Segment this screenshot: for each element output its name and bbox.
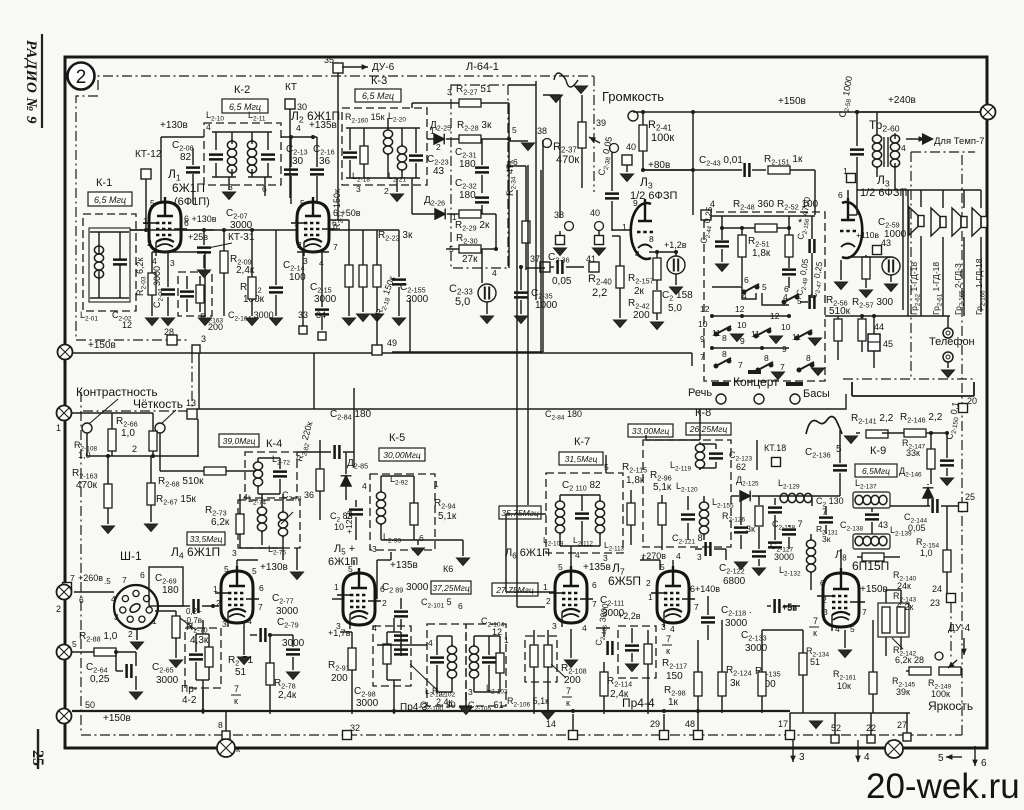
- wire +50в: [330, 219, 349, 221]
- capacitor C2-138: [865, 515, 879, 520]
- svg-text:2,4к: 2,4к: [436, 697, 453, 707]
- wire: [226, 470, 256, 472]
- svg-text:12: 12: [700, 304, 710, 314]
- svg-text:.5: .5: [104, 577, 111, 586]
- fraction bar: [809, 626, 819, 628]
- svg-text:5: 5: [762, 282, 767, 292]
- capacitor C2-65: [189, 655, 203, 660]
- svg-text:4-2: 4-2: [182, 695, 197, 706]
- wire: [703, 534, 705, 540]
- ground: [515, 316, 528, 324]
- ground: [412, 548, 425, 556]
- wire: [715, 462, 717, 468]
- diode Д2-85: [341, 476, 352, 486]
- pot arrow: [948, 660, 957, 668]
- wire: [337, 73, 339, 220]
- wire: [800, 301, 808, 303]
- wire: [980, 237, 982, 312]
- leader line R2-108: [551, 664, 566, 678]
- wire: [543, 94, 560, 96]
- svg-text:1: 1: [152, 616, 157, 626]
- svg-text:6 +50в: 6 +50в: [333, 208, 361, 218]
- diode Д2-148: [923, 488, 934, 498]
- phone jack bottom: [943, 352, 953, 362]
- svg-text:R2-88 1,0: R2-88 1,0: [79, 631, 118, 644]
- wire to Л6: [517, 606, 545, 608]
- svg-text:3к: 3к: [730, 678, 741, 689]
- tube Л4 6Ж1П: [215, 566, 259, 627]
- junction: [202, 228, 206, 232]
- svg-text:R2-117: R2-117: [662, 658, 687, 671]
- svg-text:4: 4: [206, 122, 211, 132]
- svg-text:R2-106 5,1к: R2-106 5,1к: [507, 696, 549, 709]
- wire: [381, 539, 414, 541]
- wire drop: [313, 353, 315, 409]
- svg-text:2,2: 2,2: [592, 287, 607, 299]
- wire: [902, 190, 904, 310]
- capacitor C2-116: [625, 646, 639, 651]
- wire: [236, 560, 238, 570]
- svg-text:R2-51: R2-51: [748, 236, 770, 249]
- ground: [522, 143, 535, 151]
- svg-text:R2-37: R2-37: [553, 141, 577, 155]
- svg-text:2: 2: [132, 444, 137, 454]
- svg-text:C2-138: C2-138: [840, 520, 863, 533]
- svg-text:0,05: 0,05: [552, 276, 572, 287]
- wire: [240, 547, 283, 549]
- filter can K-8: [643, 440, 731, 547]
- svg-text:26,25Мгц: 26,25Мгц: [689, 424, 728, 434]
- wire: [885, 590, 887, 603]
- wire: [135, 676, 137, 690]
- svg-text:+130в: +130в: [160, 120, 188, 131]
- wire: [946, 572, 948, 598]
- ground: [835, 282, 848, 290]
- svg-text:5: 5: [150, 198, 155, 208]
- resistor R2-147: [927, 449, 935, 469]
- svg-text:6: 6: [820, 578, 825, 588]
- coil L2-20: [383, 128, 392, 156]
- wire: [145, 179, 147, 230]
- transformer primary: [872, 133, 881, 169]
- connector 2: [57, 585, 72, 600]
- svg-text:РАДИО № 9: РАДИО № 9: [23, 40, 39, 124]
- svg-text:5: 5: [348, 564, 353, 574]
- svg-text:R2-03 6,2к: R2-03 6,2к: [135, 258, 148, 296]
- svg-text:2: 2: [76, 67, 87, 88]
- wire: [697, 714, 699, 730]
- svg-text:43: 43: [433, 166, 445, 177]
- svg-text:L2-18: L2-18: [352, 171, 370, 184]
- wire: [161, 136, 204, 138]
- svg-text:+240в: +240в: [888, 95, 916, 106]
- wire: [392, 351, 543, 353]
- resistor R2-98: [694, 672, 702, 696]
- svg-text:29: 29: [650, 719, 660, 729]
- svg-text:R2-27 51: R2-27 51: [456, 84, 492, 97]
- svg-text:R2-41: R2-41: [648, 119, 672, 133]
- wire: [581, 95, 583, 122]
- leader line Контрастность: [90, 399, 118, 423]
- svg-text:6: 6: [838, 190, 843, 200]
- wire +80в: [643, 169, 693, 171]
- frequency label 6,5Мгц: [855, 464, 897, 477]
- svg-text:4: 4: [676, 551, 681, 561]
- connector 50: [57, 709, 72, 724]
- svg-text:2: 2: [297, 240, 302, 250]
- svg-text:31,5Мгц: 31,5Мгц: [565, 454, 598, 464]
- svg-text:7: 7: [122, 575, 127, 585]
- wire: [906, 713, 908, 733]
- arrow 3: [792, 740, 794, 762]
- resistor R2-27: [459, 99, 481, 107]
- electrolytic C2-33: [478, 284, 496, 302]
- switch contact 7-8: [714, 358, 731, 368]
- wire: [321, 252, 323, 307]
- svg-text:C2-04 3000: C2-04 3000: [152, 266, 165, 308]
- svg-text:5: 5: [252, 566, 257, 576]
- svg-text:4: 4: [575, 550, 580, 560]
- wire to socket: [74, 591, 114, 593]
- video unit boundary left: [80, 392, 82, 733]
- switch contact: [782, 294, 799, 304]
- svg-text:35: 35: [324, 55, 334, 65]
- wire: [526, 267, 545, 269]
- junction: [691, 110, 695, 114]
- coil L2-103: [469, 644, 478, 680]
- wire: [231, 169, 233, 177]
- wire: [699, 409, 701, 440]
- svg-text:L2-129: L2-129: [778, 478, 800, 491]
- wire R2-37: [559, 122, 561, 218]
- cathode wire Л3b: [848, 256, 891, 258]
- svg-text:R2-126: R2-126: [722, 511, 745, 524]
- svg-text:R2-57 300: R2-57 300: [852, 297, 894, 310]
- wire: [376, 230, 378, 265]
- svg-text:C2 130: C2 130: [816, 496, 844, 509]
- svg-text:7: 7: [700, 352, 705, 362]
- svg-text:C2-84 180: C2-84 180: [330, 409, 372, 422]
- junction: [787, 226, 791, 230]
- svg-text:7: 7: [862, 607, 867, 617]
- wire: [412, 213, 435, 215]
- wire: [290, 137, 292, 167]
- wire K8 top: [646, 439, 700, 441]
- inter-unit wire: [527, 165, 529, 505]
- svg-text:4: 4: [901, 143, 906, 153]
- capacitor C2-136: [833, 466, 847, 471]
- inner screen box K-1: [89, 228, 130, 302]
- svg-text:6,2к: 6,2к: [211, 517, 230, 528]
- capacitor: [734, 528, 748, 533]
- wire: [251, 299, 253, 316]
- wire: [715, 444, 717, 449]
- wire: [345, 486, 347, 500]
- terminal 33: [299, 326, 307, 334]
- schematic outer frame: [65, 57, 987, 748]
- wire: [774, 525, 776, 540]
- coil L2-10: [227, 139, 236, 175]
- svg-text:C2-43 0,01: C2-43 0,01: [699, 155, 743, 168]
- terminal 3: [192, 345, 200, 353]
- svg-text:35,75Мгц: 35,75Мгц: [501, 508, 539, 518]
- button Басы: [790, 394, 800, 404]
- terminal: [660, 731, 669, 740]
- svg-text:R2-42: R2-42: [628, 298, 650, 311]
- svg-text:5: 5: [449, 244, 454, 254]
- diode Д2-25: [434, 134, 444, 145]
- wire: [90, 231, 129, 233]
- svg-text:L2-01: L2-01: [80, 310, 98, 323]
- junction: [696, 709, 700, 713]
- wire: [605, 455, 607, 473]
- wire: [740, 535, 742, 549]
- wire: [572, 714, 574, 730]
- svg-text:1: 1: [213, 584, 218, 594]
- svg-text:5: 5: [72, 639, 77, 649]
- fuse unit box Пр4-4: [618, 626, 656, 678]
- junction: [494, 247, 498, 251]
- svg-text:L2-120: L2-120: [676, 481, 698, 494]
- wire: [707, 625, 709, 640]
- capacitor C2-43: [745, 163, 750, 177]
- ground: [885, 284, 898, 292]
- svg-text:+150в: +150в: [860, 584, 888, 595]
- wire: [447, 213, 460, 215]
- svg-text:43: 43: [881, 238, 891, 248]
- capacitor: [681, 515, 695, 520]
- svg-text:39,0Мгц: 39,0Мгц: [223, 436, 256, 446]
- svg-text:C2-65: C2-65: [152, 662, 174, 675]
- wire: [462, 540, 464, 556]
- capacitor: [709, 454, 723, 459]
- wire: [167, 252, 169, 287]
- svg-text:(6Ф1П): (6Ф1П): [174, 196, 210, 208]
- svg-text:R2-67 15к: R2-67 15к: [156, 494, 197, 507]
- resistor R2-71: [205, 647, 213, 667]
- wire: [290, 176, 292, 204]
- svg-text:1: 1: [334, 582, 339, 592]
- wire: [619, 236, 621, 266]
- diode Д2-125: [740, 491, 750, 502]
- svg-text:Д2-26: Д2-26: [424, 195, 445, 208]
- wire: [930, 469, 932, 484]
- capacitor C2-58: [850, 150, 864, 155]
- resistor R2-51: [738, 235, 746, 257]
- terminal 25: [959, 503, 968, 512]
- wire tail: [691, 353, 693, 366]
- wire: [509, 140, 528, 142]
- svg-text:28: 28: [164, 327, 174, 337]
- fuse unit Пр-4-2: [185, 628, 221, 688]
- svg-text:3: 3: [661, 622, 666, 632]
- svg-text:7: 7: [70, 573, 75, 583]
- svg-text:R2-29 2к: R2-29 2к: [455, 220, 490, 233]
- wire: [380, 476, 382, 492]
- wire: [825, 506, 827, 515]
- ground: [554, 248, 567, 256]
- svg-text:C2-79: C2-79: [277, 617, 299, 630]
- wire: [349, 160, 351, 178]
- wire: [762, 629, 803, 631]
- svg-text:К-5: К-5: [389, 432, 405, 444]
- svg-text:100к: 100к: [931, 689, 950, 699]
- wire: [481, 213, 496, 215]
- svg-text:+150в: +150в: [778, 96, 806, 107]
- wire: [414, 539, 463, 541]
- K-3 bottom wire: [346, 177, 420, 179]
- button Речь: [716, 394, 726, 404]
- contrast box boundary: [83, 410, 188, 412]
- wire: [663, 714, 665, 730]
- arrow: [906, 138, 925, 140]
- pot wiper arrow: [589, 137, 600, 143]
- resistor R2-124: [718, 672, 726, 696]
- wire: [160, 470, 204, 472]
- wire: [675, 274, 677, 285]
- svg-text:R2-78: R2-78: [274, 678, 296, 691]
- bus right: [790, 712, 910, 714]
- long vertical wire: [353, 388, 355, 452]
- wire: [533, 667, 535, 714]
- svg-text:2,4к: 2,4к: [278, 690, 297, 701]
- svg-text:20-wek.ru: 20-wek.ru: [866, 767, 1020, 806]
- svg-text:10: 10: [737, 320, 747, 330]
- terminal: [63, 583, 72, 592]
- pot knob: [155, 423, 165, 433]
- svg-text:3000: 3000: [725, 618, 748, 629]
- wire: [474, 635, 500, 637]
- svg-text:ДУ-6: ДУ-6: [372, 62, 395, 73]
- svg-text:Тр2-60: Тр2-60: [869, 118, 900, 134]
- ground: [343, 318, 356, 326]
- resistor R2-96: [658, 503, 666, 525]
- svg-text:3: 3: [552, 621, 557, 631]
- svg-text:5,1к: 5,1к: [438, 511, 457, 522]
- wire: [398, 230, 400, 277]
- wire drop: [198, 353, 200, 409]
- wire: [340, 631, 352, 633]
- svg-text:2: 2: [216, 598, 221, 608]
- wire: [119, 232, 121, 259]
- svg-text:2: 2: [56, 604, 61, 614]
- wire: [349, 128, 351, 150]
- svg-text:6800: 6800: [723, 576, 746, 587]
- tube Л2 6Ж1П: [291, 197, 335, 256]
- capacitor C2-101: [394, 612, 408, 617]
- wire: [856, 112, 858, 146]
- svg-text:1,0: 1,0: [920, 548, 933, 558]
- wire: [231, 132, 233, 144]
- wire: [947, 362, 949, 368]
- resistor R2-73: [236, 514, 244, 534]
- ground: [942, 370, 955, 378]
- wire: [228, 177, 230, 190]
- wire: [547, 667, 549, 710]
- svg-text:51: 51: [810, 657, 820, 667]
- svg-text:7: 7: [780, 362, 785, 372]
- wire: [345, 452, 347, 474]
- svg-text:1,8к: 1,8к: [626, 475, 645, 486]
- junction: [945, 431, 949, 435]
- resistor R2-91: [348, 648, 356, 670]
- svg-text:к: к: [234, 696, 238, 706]
- junction: [710, 314, 714, 318]
- junction: [860, 314, 864, 318]
- terminal 28: [167, 335, 177, 345]
- resistor R2-165: [104, 484, 112, 508]
- svg-text:0,25: 0,25: [90, 674, 110, 685]
- svg-text:470к: 470к: [76, 480, 98, 491]
- svg-text:К6: К6: [443, 564, 453, 574]
- capacitor C2-32: [475, 198, 489, 203]
- svg-text:+5в: +5в: [782, 602, 797, 612]
- AGC chain line: [76, 339, 190, 341]
- resistor: [862, 257, 870, 279]
- wire: [275, 295, 277, 316]
- terminal 49: [372, 345, 382, 355]
- svg-text:Пр-: Пр-: [181, 684, 197, 695]
- wire: [661, 495, 663, 503]
- leader line C2-07: [208, 243, 232, 248]
- wire: [631, 628, 633, 643]
- svg-text:+130в: +130в: [260, 562, 288, 573]
- resistor R2-157: [653, 258, 661, 280]
- wire: [559, 95, 561, 122]
- resistor R2-114: [600, 672, 608, 696]
- wire: [98, 270, 100, 298]
- svg-text:6Ж5П: 6Ж5П: [608, 574, 641, 588]
- capacitor: [775, 599, 780, 613]
- svg-text:2: 2: [436, 142, 441, 152]
- terminal: [569, 731, 578, 740]
- wire: [203, 230, 205, 245]
- ground: [146, 318, 159, 326]
- wire: [257, 486, 259, 494]
- bottom connector: [885, 740, 903, 758]
- resistor: [862, 553, 884, 561]
- wire: [767, 605, 771, 607]
- svg-text:+125в: +125в: [344, 510, 354, 534]
- svg-text:+150в: +150в: [88, 340, 116, 351]
- svg-text:C2 89 3000: C2 89 3000: [382, 582, 429, 595]
- tube Л8 6П15П: [817, 568, 865, 631]
- wire mid: [87, 455, 199, 457]
- resistor R2-09: [220, 251, 228, 273]
- wire: [451, 636, 453, 646]
- wire top: [71, 412, 153, 414]
- capacitor: [575, 514, 589, 519]
- wire: [788, 257, 790, 268]
- terminal 4: [701, 210, 711, 220]
- chain ДУ-4: [950, 603, 952, 660]
- wire: [413, 476, 415, 503]
- cathode wire: [649, 251, 676, 253]
- resistor R2-88: [94, 648, 116, 656]
- coil L2-92: [376, 490, 385, 526]
- junction: [674, 250, 678, 254]
- arrow to ДУ-6: [342, 66, 368, 68]
- wire: [203, 255, 205, 268]
- svg-text:180: 180: [162, 585, 179, 596]
- wire: [159, 433, 161, 447]
- switch row wire 9: [712, 347, 789, 349]
- svg-text:49: 49: [387, 338, 397, 348]
- svg-text:150: 150: [666, 671, 683, 682]
- frequency label 26,25Мгц: [686, 423, 731, 435]
- wire: [381, 475, 414, 477]
- wire: [603, 662, 605, 672]
